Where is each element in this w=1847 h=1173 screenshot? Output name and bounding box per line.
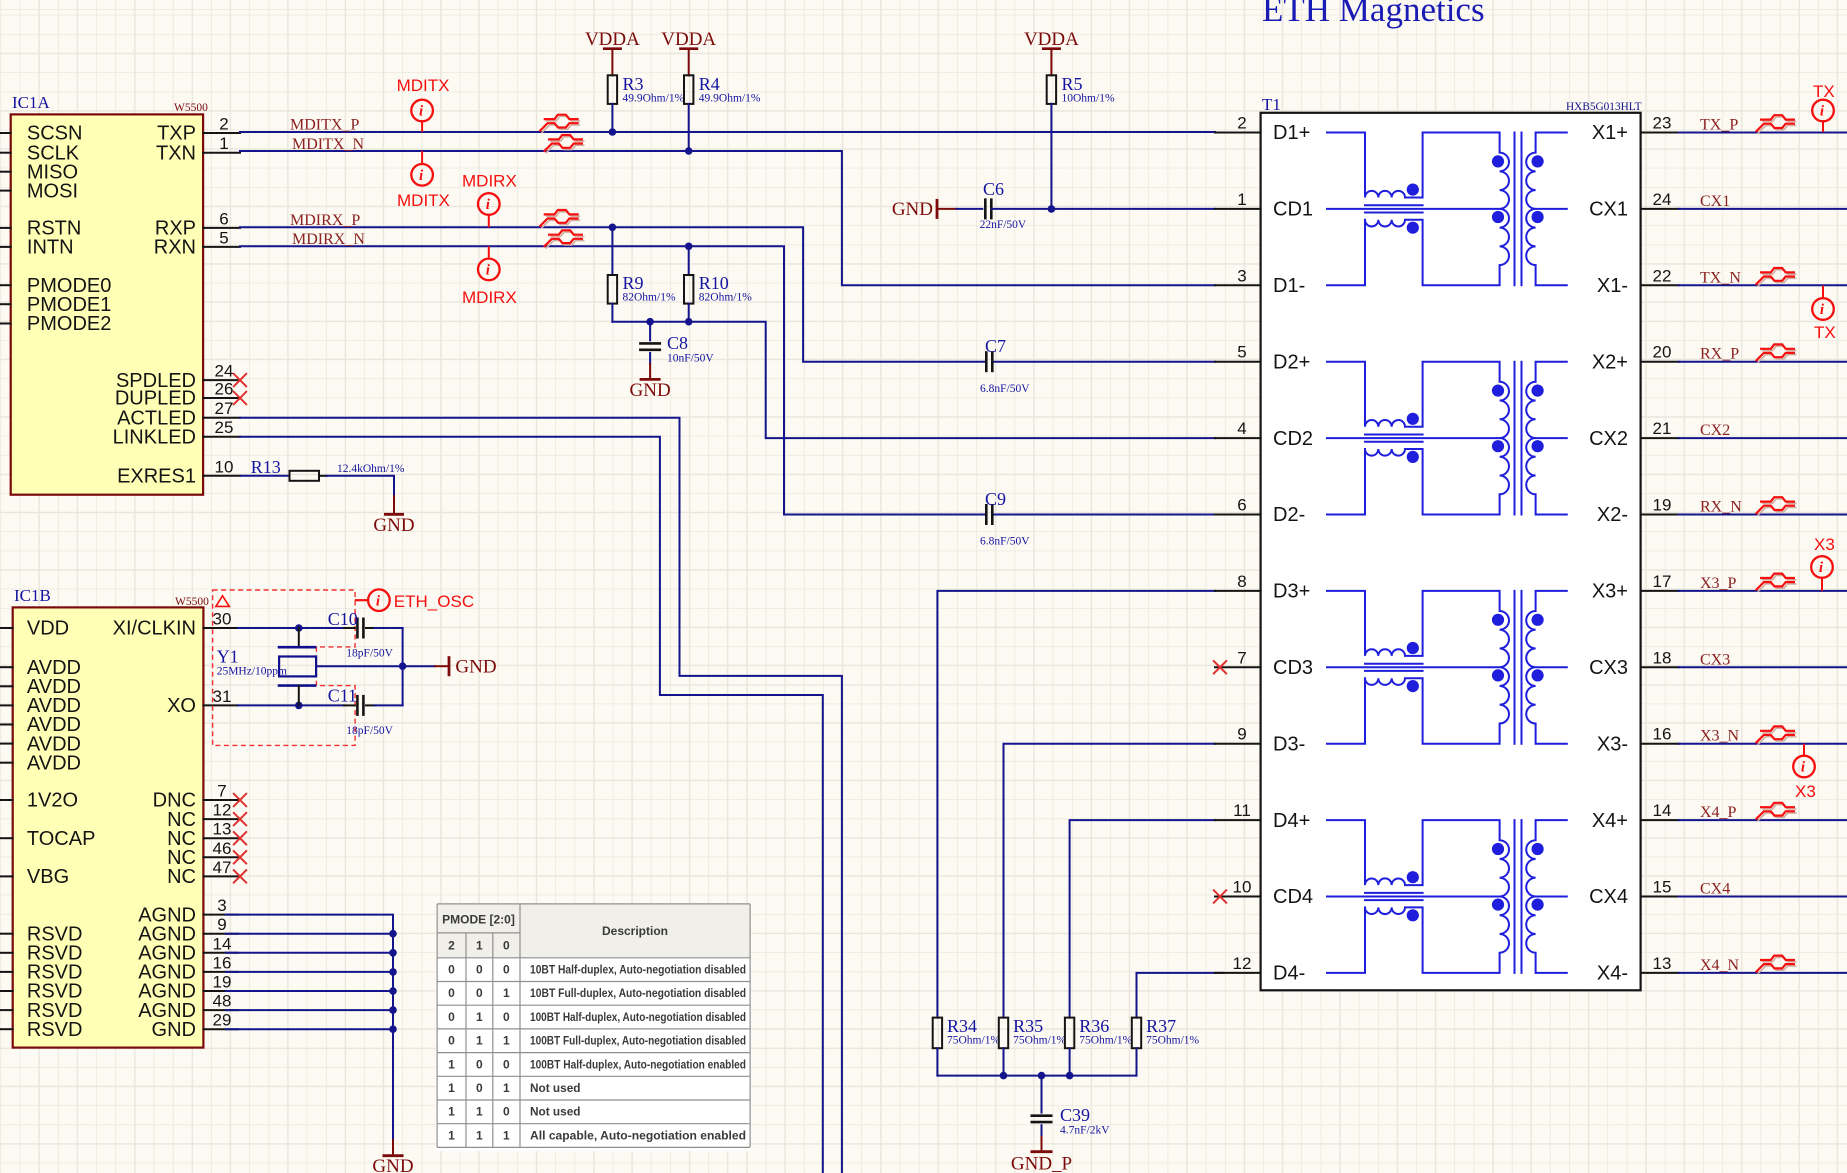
svg-text:1: 1	[476, 1034, 483, 1048]
svg-text:18pF/50V: 18pF/50V	[346, 725, 393, 737]
resistor R37 75Ohm/1%	[1132, 1016, 1200, 1076]
differential pair symbol on X3_P	[1757, 574, 1796, 592]
svg-text:100BT Half-duplex, Auto-negoti: 100BT Half-duplex, Auto-negotiation disa…	[530, 1010, 746, 1024]
no-connect X on NC pin 46	[234, 851, 246, 863]
resistor R10 82Ohm/1%	[684, 246, 752, 321]
wire XI/CLKIN to C10 and crystal	[238, 624, 344, 632]
svg-text:XO: XO	[167, 695, 196, 717]
wire T1 pin 12 D4- to R37	[1137, 973, 1224, 1018]
wire AGND bus from IC1B pins 3,9,14,16,19,48,29 to GND	[226, 915, 397, 1140]
net label RX_N	[1700, 499, 1742, 516]
svg-text:CX3: CX3	[1700, 651, 1730, 668]
IC1B right pins XI/CLKIN XO DNC NC AGND GND	[113, 610, 238, 1041]
svg-text:VBG: VBG	[27, 866, 69, 888]
svg-text:25MHz/10ppm: 25MHz/10ppm	[217, 666, 287, 678]
power port GND below C8	[630, 364, 671, 401]
svg-text:R13: R13	[251, 457, 281, 477]
svg-text:i: i	[1819, 560, 1824, 576]
svg-text:RXN: RXN	[154, 237, 196, 259]
svg-text:0: 0	[476, 963, 483, 977]
power port GND at crystal (rotated)	[435, 656, 497, 677]
resistor R36 75Ohm/1%	[1065, 1016, 1133, 1076]
wire MDITX_N from TXN to T1 pin 3	[240, 147, 1215, 285]
svg-text:W5500: W5500	[175, 596, 209, 608]
svg-text:TX: TX	[1813, 82, 1835, 101]
svg-text:GND: GND	[372, 1156, 413, 1173]
svg-text:14: 14	[1653, 801, 1672, 820]
svg-text:MDIRX_P: MDIRX_P	[290, 212, 360, 229]
svg-text:D4+: D4+	[1273, 810, 1310, 832]
svg-text:15: 15	[1653, 878, 1672, 897]
net label X3_P	[1700, 575, 1737, 592]
svg-text:D4-: D4-	[1273, 963, 1305, 985]
svg-text:4: 4	[1237, 419, 1246, 438]
svg-text:0: 0	[476, 1057, 483, 1071]
svg-text:R36: R36	[1079, 1016, 1109, 1036]
IC1A left pins SCSN SCLK MISO MOSI RSTN INTN PMODE0 PMODE1 PMODE2	[0, 123, 111, 336]
svg-text:RX_N: RX_N	[1700, 499, 1742, 516]
directive label MDITX (bottom)	[397, 191, 450, 210]
svg-text:R37: R37	[1146, 1016, 1176, 1036]
svg-text:T1: T1	[1262, 95, 1281, 114]
svg-text:C10: C10	[328, 609, 358, 629]
svg-text:X3_N: X3_N	[1700, 728, 1740, 745]
directive label MDIRX (top)	[462, 171, 517, 190]
svg-text:D1+: D1+	[1273, 122, 1310, 144]
svg-text:0: 0	[503, 939, 510, 953]
net label TX_N	[1700, 269, 1741, 286]
svg-text:TX_P: TX_P	[1700, 117, 1738, 134]
resistor R4 49.9Ohm/1%	[684, 74, 761, 151]
svg-text:0: 0	[503, 1105, 510, 1119]
svg-text:X3: X3	[1795, 782, 1816, 801]
resistor R3 49.9Ohm/1%	[608, 74, 685, 132]
svg-text:0: 0	[503, 963, 510, 977]
crystal Y1 25MHz/10ppm	[217, 628, 317, 705]
wire MDITX_P from TXP to T1 pin 2	[240, 128, 1215, 136]
no-connect X on NC pin 47	[234, 870, 246, 882]
no-connect X on NC pin 13	[234, 832, 246, 844]
svg-text:18: 18	[1653, 648, 1672, 667]
IC1B left pins VDD AVDD 1V2O TOCAP VBG RSVD	[0, 618, 95, 1041]
svg-text:i: i	[419, 168, 424, 184]
wire common node bus of R34-R37	[937, 1072, 1136, 1080]
svg-text:i: i	[486, 263, 491, 279]
svg-text:1V2O: 1V2O	[27, 790, 78, 812]
svg-text:75Ohm/1%: 75Ohm/1%	[1013, 1035, 1066, 1047]
svg-text:W5500: W5500	[174, 102, 208, 114]
svg-text:LINKLED: LINKLED	[113, 426, 196, 448]
directive label TX (top right)	[1813, 82, 1835, 101]
svg-text:MDITX: MDITX	[397, 76, 450, 95]
svg-text:0: 0	[476, 986, 483, 1000]
svg-text:TXP: TXP	[157, 123, 196, 145]
svg-text:16: 16	[1653, 725, 1672, 744]
svg-text:SCSN: SCSN	[27, 123, 83, 145]
directive label X3 (below X3_N)	[1795, 782, 1816, 801]
wire net CX4 to sheet edge	[1679, 896, 1847, 898]
svg-text:MDITX: MDITX	[397, 191, 450, 210]
svg-text:0: 0	[448, 963, 455, 977]
svg-text:Description: Description	[602, 924, 668, 938]
T1 left pins D1..D4 CD1..CD4	[1215, 114, 1313, 985]
differential pair symbol on TX_N	[1757, 268, 1796, 286]
svg-text:i: i	[486, 197, 491, 213]
svg-text:CX3: CX3	[1589, 657, 1628, 679]
capacitor C8 10nF/50V	[639, 322, 714, 365]
svg-text:CD1: CD1	[1273, 199, 1313, 221]
svg-text:PMODE [2:0]: PMODE [2:0]	[442, 913, 515, 927]
svg-text:X4_P: X4_P	[1700, 804, 1737, 821]
net label MDIRX_N	[292, 231, 365, 248]
svg-text:CX4: CX4	[1700, 881, 1730, 898]
svg-text:CD2: CD2	[1273, 428, 1313, 450]
no-connect X on SPDLED pin 24	[234, 374, 246, 386]
svg-text:Y1: Y1	[217, 647, 239, 667]
svg-text:GND: GND	[455, 657, 496, 678]
svg-text:8: 8	[1237, 572, 1246, 591]
IC IC1A W5500 body	[11, 93, 208, 495]
IC IC1B W5500 body	[13, 586, 209, 1048]
T1 right pins X1..X4 CX1..CX4	[1589, 114, 1679, 985]
svg-text:XI/CLKIN: XI/CLKIN	[113, 618, 196, 640]
svg-text:5: 5	[219, 228, 228, 247]
svg-text:VDDA: VDDA	[661, 29, 716, 50]
svg-text:48: 48	[213, 992, 232, 1011]
capacitor C10 18pF/50V	[328, 609, 403, 660]
svg-text:2: 2	[219, 115, 228, 134]
svg-text:20: 20	[1653, 343, 1672, 362]
svg-text:82Ohm/1%: 82Ohm/1%	[623, 292, 676, 304]
svg-text:VDDA: VDDA	[1024, 29, 1079, 50]
wire crystal tap to GND trunk	[316, 665, 403, 667]
svg-text:100BT Half-duplex, Auto-negoti: 100BT Half-duplex, Auto-negotiation enab…	[530, 1057, 746, 1071]
svg-text:75Ohm/1%: 75Ohm/1%	[947, 1035, 1000, 1047]
wire MDIRX_N from RXN to T1 pin 6	[240, 243, 1215, 515]
svg-text:0: 0	[503, 1057, 510, 1071]
wire net X4_P to sheet edge	[1679, 819, 1847, 821]
svg-text:CX2: CX2	[1589, 428, 1628, 450]
svg-text:i: i	[1820, 302, 1825, 318]
svg-text:D2+: D2+	[1273, 351, 1310, 373]
net label CX4	[1700, 881, 1730, 898]
svg-text:HXB5G013HLT: HXB5G013HLT	[1566, 101, 1642, 113]
power port VDDA for R5	[1024, 29, 1079, 75]
svg-text:25: 25	[215, 418, 234, 437]
svg-text:X3_P: X3_P	[1700, 575, 1737, 592]
svg-text:10Ohm/1%: 10Ohm/1%	[1062, 93, 1115, 105]
svg-text:C9: C9	[985, 489, 1006, 509]
capacitor C39 4.7nF/2kV	[1031, 1076, 1111, 1137]
svg-text:1: 1	[448, 1128, 455, 1142]
wire T1 pin 9 D3- to R35	[1004, 744, 1216, 1018]
info circle TX on TX_P	[1812, 100, 1834, 131]
no-connect X on T1 pin 10 CD4	[1214, 890, 1226, 902]
svg-text:X4+: X4+	[1592, 810, 1628, 832]
net label MDITX_P	[290, 117, 359, 134]
svg-text:i: i	[419, 104, 424, 120]
wire net CX2 to sheet edge	[1679, 437, 1847, 439]
svg-text:19: 19	[213, 973, 232, 992]
no-connect X on T1 pin 7 CD3	[1214, 661, 1226, 673]
svg-text:82Ohm/1%: 82Ohm/1%	[699, 292, 752, 304]
power port GND_P below C39	[1011, 1137, 1072, 1173]
differential pair symbol on X3_N	[1757, 726, 1796, 744]
svg-text:CX1: CX1	[1700, 193, 1730, 210]
svg-text:22: 22	[1653, 266, 1672, 285]
svg-text:3: 3	[217, 896, 226, 915]
svg-text:C11: C11	[328, 686, 357, 706]
svg-text:75Ohm/1%: 75Ohm/1%	[1079, 1035, 1132, 1047]
svg-text:R3: R3	[623, 74, 644, 94]
directive label MDITX (top)	[397, 76, 450, 95]
svg-text:X4-: X4-	[1597, 963, 1628, 985]
svg-text:X3: X3	[1814, 535, 1835, 554]
transformer T1 winding group 2	[1327, 362, 1567, 515]
info circle ETH_OSC directive	[356, 589, 474, 611]
svg-text:X3-: X3-	[1597, 733, 1628, 755]
wire net RX_P to sheet edge	[1679, 361, 1847, 363]
svg-text:10nF/50V: 10nF/50V	[667, 353, 714, 365]
differential pair symbol on RX_N	[1757, 497, 1796, 515]
svg-text:X4_N: X4_N	[1700, 957, 1740, 974]
net label X3_N	[1700, 728, 1740, 745]
svg-text:EXRES1: EXRES1	[117, 466, 196, 488]
svg-text:All capable, Auto-negotiation: All capable, Auto-negotiation enabled	[530, 1128, 746, 1142]
svg-text:12.4kOhm/1%: 12.4kOhm/1%	[337, 463, 405, 475]
net label X4_P	[1700, 804, 1737, 821]
svg-text:2: 2	[448, 939, 455, 953]
svg-text:31: 31	[213, 687, 232, 706]
svg-text:6.8nF/50V: 6.8nF/50V	[980, 536, 1030, 548]
sheet title ETH Magnetics	[1262, 0, 1485, 29]
svg-text:IC1A: IC1A	[12, 93, 51, 112]
directive label MDIRX (bottom)	[462, 288, 517, 307]
svg-text:NC: NC	[167, 866, 196, 888]
svg-text:C39: C39	[1060, 1105, 1090, 1125]
svg-text:1: 1	[476, 1128, 483, 1142]
differential pair symbol on X4_P	[1757, 803, 1796, 821]
info circle MDITX on MDITX_P	[411, 100, 433, 131]
svg-text:1: 1	[448, 1081, 455, 1095]
svg-text:24: 24	[1653, 190, 1672, 209]
net label CX3	[1700, 651, 1730, 668]
svg-text:18pF/50V: 18pF/50V	[346, 648, 393, 660]
svg-text:16: 16	[213, 953, 232, 972]
svg-text:X2+: X2+	[1592, 351, 1628, 373]
svg-text:46: 46	[213, 839, 232, 858]
svg-text:1: 1	[476, 1105, 483, 1119]
differential pair symbol on X4_N	[1757, 956, 1796, 974]
svg-text:GND: GND	[152, 1019, 196, 1041]
svg-text:TX: TX	[1814, 323, 1836, 342]
svg-text:49.9Ohm/1%: 49.9Ohm/1%	[623, 93, 685, 105]
svg-text:AVDD: AVDD	[27, 752, 81, 774]
info circle MDIRX on MDIRX_N	[478, 247, 500, 280]
wire T1 pin 11 D4+ to R36	[1070, 820, 1215, 1018]
svg-text:1: 1	[219, 134, 228, 153]
svg-text:29: 29	[213, 1011, 232, 1030]
power port VDDA for R3	[585, 29, 640, 75]
svg-text:RSVD: RSVD	[27, 1019, 83, 1041]
svg-text:1: 1	[503, 986, 510, 1000]
svg-text:C8: C8	[667, 333, 688, 353]
svg-text:GND: GND	[892, 199, 933, 220]
svg-text:R4: R4	[699, 74, 720, 94]
svg-text:MOSI: MOSI	[27, 180, 78, 202]
svg-text:CX4: CX4	[1589, 886, 1628, 908]
svg-text:GND: GND	[373, 515, 414, 536]
wire net TX_P to sheet edge	[1679, 132, 1847, 134]
info circle MDIRX on MDIRX_P	[478, 193, 500, 226]
differential pair symbol on MDITX_P	[540, 115, 579, 133]
svg-text:4.7nF/2kV: 4.7nF/2kV	[1060, 1125, 1110, 1137]
svg-text:D1-: D1-	[1273, 275, 1305, 297]
svg-text:5: 5	[1237, 343, 1246, 362]
resistor R13 12.4kOhm/1%	[241, 457, 405, 481]
differential pair symbol on MDIRX_P	[540, 210, 579, 228]
svg-text:1: 1	[476, 939, 483, 953]
svg-text:X3+: X3+	[1592, 581, 1628, 603]
net label MDITX_N	[292, 136, 364, 153]
svg-text:IC1B: IC1B	[14, 586, 51, 605]
svg-text:27: 27	[215, 399, 234, 418]
wire net CX3 to sheet edge	[1679, 666, 1847, 668]
svg-text:RX_P: RX_P	[1700, 346, 1739, 363]
svg-text:100BT Full-duplex, Auto-negoti: 100BT Full-duplex, Auto-negotiation disa…	[530, 1034, 746, 1048]
svg-text:0: 0	[448, 1010, 455, 1024]
svg-text:0: 0	[448, 986, 455, 1000]
svg-text:6: 6	[219, 209, 228, 228]
svg-text:2: 2	[1237, 114, 1246, 133]
wire R13 to GND	[327, 476, 394, 496]
resistor R35 75Ohm/1%	[999, 1016, 1067, 1076]
net label RX_P	[1700, 346, 1739, 363]
wire C10/C11 ground trunk	[399, 628, 435, 705]
svg-text:10BT Half-duplex, Auto-negotia: 10BT Half-duplex, Auto-negotiation disab…	[530, 963, 746, 977]
svg-text:MDIRX_N: MDIRX_N	[292, 231, 365, 248]
svg-text:12: 12	[213, 801, 232, 820]
info circle TX on TX_N	[1812, 287, 1834, 320]
svg-text:12: 12	[1233, 954, 1252, 973]
wire MDIRX_P from RXP to T1 pin 5	[240, 224, 1215, 362]
svg-text:i: i	[1820, 104, 1825, 120]
IC1A right pins TXP TXN RXP RXN SPDLED DUPLED ACTLED LINKLED EXRES1	[113, 115, 240, 488]
wire net TX_N to sheet edge	[1679, 284, 1847, 286]
capacitor C11 18pF/50V	[328, 686, 403, 738]
power port GND below R13	[373, 496, 414, 536]
svg-text:TXN: TXN	[156, 142, 196, 164]
svg-text:17: 17	[1653, 572, 1672, 591]
svg-text:DUPLED: DUPLED	[115, 388, 196, 410]
svg-text:7: 7	[217, 782, 226, 801]
svg-text:26: 26	[215, 380, 234, 399]
differential pair symbol on MDIRX_N	[545, 230, 584, 248]
svg-text:11: 11	[1233, 801, 1251, 820]
wire R9/R10 common node to T1 pin 4 CD2	[612, 318, 1215, 438]
svg-text:49.9Ohm/1%: 49.9Ohm/1%	[699, 93, 761, 105]
svg-text:19: 19	[1653, 496, 1672, 515]
svg-text:13: 13	[1653, 954, 1672, 973]
svg-text:R5: R5	[1062, 74, 1083, 94]
svg-text:PMODE2: PMODE2	[27, 313, 111, 335]
transformer T1 winding group 1	[1327, 133, 1567, 286]
svg-text:1: 1	[476, 1010, 483, 1024]
svg-text:MDITX_N: MDITX_N	[292, 136, 364, 153]
transformer T1 winding group 4	[1327, 820, 1567, 973]
svg-text:1: 1	[503, 1034, 510, 1048]
directive label X3 (above X3_P)	[1814, 535, 1835, 554]
svg-text:1: 1	[503, 1081, 510, 1095]
svg-text:0: 0	[476, 1081, 483, 1095]
differential pair symbol on TX_P	[1757, 115, 1796, 133]
svg-text:23: 23	[1653, 114, 1672, 133]
svg-text:X2-: X2-	[1597, 504, 1628, 526]
wire XO to C11 and crystal	[238, 702, 344, 710]
differential pair symbol on RX_P	[1757, 344, 1796, 362]
directive label TX (below TX_N)	[1814, 323, 1836, 342]
no-connect X on DUPLED pin 26	[234, 392, 246, 404]
svg-text:VDD: VDD	[27, 618, 69, 640]
wire net RX_N to sheet edge	[1679, 514, 1847, 516]
svg-text:C7: C7	[985, 336, 1006, 356]
svg-text:0: 0	[448, 1034, 455, 1048]
svg-text:1: 1	[448, 1105, 455, 1119]
resistor R5 10Ohm/1%	[1047, 74, 1115, 209]
svg-text:24: 24	[215, 362, 234, 381]
transformer T1 winding group 3	[1327, 591, 1567, 744]
wire net X3_P to sheet edge	[1679, 590, 1847, 592]
svg-text:CX2: CX2	[1700, 422, 1730, 439]
net label MDIRX_P	[290, 212, 360, 229]
svg-text:0: 0	[503, 1010, 510, 1024]
svg-text:VDDA: VDDA	[585, 29, 640, 50]
svg-text:MDIRX: MDIRX	[462, 288, 517, 307]
svg-text:13: 13	[213, 820, 232, 839]
svg-text:30: 30	[213, 610, 232, 629]
svg-text:1: 1	[448, 1057, 455, 1071]
svg-text:ETH_OSC: ETH_OSC	[394, 592, 474, 611]
svg-text:9: 9	[1237, 725, 1246, 744]
compile-mask dashed box around Y1	[213, 590, 356, 745]
svg-text:C6: C6	[983, 179, 1004, 199]
wire LINKLED from IC1A pin 25 down off-sheet	[240, 437, 823, 1173]
PMODE configuration table	[436, 903, 751, 1151]
svg-text:i: i	[1801, 760, 1806, 776]
wire ACTLED from IC1A pin 27 down off-sheet	[240, 418, 842, 1173]
svg-text:D2-: D2-	[1273, 504, 1305, 526]
svg-text:R34: R34	[947, 1016, 977, 1036]
svg-text:1: 1	[1237, 190, 1246, 209]
no-connect X on NC pin 12	[234, 813, 246, 825]
info circle X3 on X3_N	[1793, 745, 1815, 778]
power port VDDA for R4	[661, 29, 716, 75]
info circle MDITX on MDITX_N	[411, 152, 433, 186]
differential pair symbol on MDITX_N	[545, 135, 584, 153]
svg-text:R9: R9	[623, 273, 644, 293]
svg-text:TOCAP: TOCAP	[27, 828, 96, 850]
power port GND below AGND trunk	[372, 1140, 413, 1173]
svg-text:MDITX_P: MDITX_P	[290, 117, 359, 134]
svg-text:6: 6	[1237, 496, 1246, 515]
net label X4_N	[1700, 957, 1740, 974]
net label TX_P	[1700, 117, 1738, 134]
capacitor C9 6.8nF/50V	[980, 489, 1030, 548]
resistor R34 75Ohm/1%	[933, 1016, 1001, 1076]
net label CX2	[1700, 422, 1730, 439]
svg-text:GND: GND	[630, 380, 671, 401]
svg-text:10BT Full-duplex, Auto-negotia: 10BT Full-duplex, Auto-negotiation disab…	[530, 986, 746, 1000]
